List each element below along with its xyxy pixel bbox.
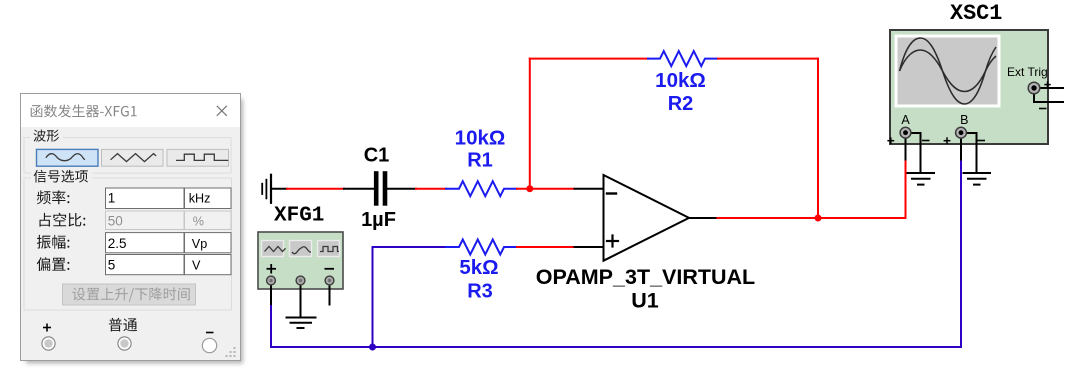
svg-text:V: V bbox=[192, 258, 201, 272]
svg-text:1µF: 1µF bbox=[361, 209, 396, 231]
groupbox label waveform bbox=[34, 130, 60, 142]
svg-text:Ext Trig: Ext Trig bbox=[1007, 65, 1048, 79]
resistor R3 symbol bbox=[446, 240, 517, 255]
op-amp minus sign bbox=[607, 192, 616, 194]
channel B terminal bbox=[956, 127, 967, 138]
channel A terminal stem bbox=[905, 135, 907, 161]
junction node at R1 output bbox=[526, 185, 533, 192]
waveform button sine (selected) bbox=[37, 149, 99, 166]
wire: bottom rail (blue) from XFG1 plus terminal to scope B bbox=[271, 160, 961, 347]
dialog title text bbox=[31, 105, 137, 118]
XSC1 waveform trace A bbox=[900, 38, 997, 104]
duty cycle unit box (disabled) bbox=[185, 211, 232, 230]
ground symbol under channel A bbox=[907, 173, 936, 185]
svg-text:U1: U1 bbox=[631, 288, 659, 312]
minus mark above radio 3 bbox=[206, 332, 214, 334]
op-amp U1 triangle bbox=[604, 175, 690, 261]
channel B terminal stem bbox=[960, 135, 962, 161]
svg-text:5kΩ: 5kΩ bbox=[459, 256, 498, 279]
svg-text:50: 50 bbox=[108, 213, 123, 228]
XFG1 terminal - bbox=[325, 276, 334, 285]
svg-text:R3: R3 bbox=[467, 281, 493, 303]
wire: R1 to op-amp minus input bbox=[517, 188, 604, 190]
XFG1 source symbol (3 bars) bbox=[262, 175, 271, 203]
svg-text:kHz: kHz bbox=[189, 192, 211, 206]
svg-text:XSC1: XSC1 bbox=[950, 1, 1002, 26]
Ext Trig terminal bbox=[1028, 82, 1040, 94]
svg-text:5: 5 bbox=[108, 257, 116, 272]
Ext Trig plus mark bbox=[1044, 81, 1050, 87]
radio button plus bbox=[42, 337, 55, 350]
resize grip bbox=[226, 347, 236, 357]
wire: R3 to op-amp plus input bbox=[517, 246, 604, 248]
waveform button triangle bbox=[102, 149, 164, 166]
wire: op-amp output bbox=[689, 160, 906, 218]
XSC1 screen bbox=[898, 38, 998, 105]
junction node at output bbox=[815, 215, 822, 222]
svg-text:%: % bbox=[193, 214, 204, 228]
channel B minus mark bbox=[978, 140, 986, 142]
resistor R1 symbol bbox=[446, 181, 517, 196]
svg-text:OPAMP_3T_VIRTUAL: OPAMP_3T_VIRTUAL bbox=[536, 265, 755, 289]
channel B minus stub to ground bbox=[964, 133, 977, 172]
svg-text:Vp: Vp bbox=[192, 237, 207, 251]
XFG1 terminal + bbox=[267, 276, 276, 285]
plus mark above radio 1 bbox=[43, 324, 51, 332]
waveform button square bbox=[167, 149, 229, 166]
XSC1 instrument box bbox=[890, 30, 1048, 144]
amplitude unit box bbox=[185, 233, 232, 253]
capacitor C1 plates bbox=[376, 174, 385, 204]
resistor R2 symbol bbox=[648, 51, 718, 66]
XFG1 instrument box bbox=[258, 232, 343, 289]
op-amp plus sign bbox=[607, 236, 618, 247]
channel A minus stub to ground bbox=[908, 133, 921, 172]
dialog panel body bbox=[21, 94, 241, 361]
svg-text:R2: R2 bbox=[668, 93, 694, 115]
channel A terminal bbox=[900, 127, 911, 138]
XSC1 screen frame bbox=[895, 35, 1001, 108]
svg-text:XFG1: XFG1 bbox=[274, 205, 324, 228]
XFG1 minus polarity mark bbox=[325, 268, 335, 270]
radio button minus bbox=[202, 338, 216, 352]
svg-text:C1: C1 bbox=[364, 144, 390, 166]
channel A plus mark bbox=[887, 137, 894, 144]
wire: C1 to R1 bbox=[387, 188, 446, 190]
wire: junction up to feedback (R2) top rail bbox=[530, 59, 648, 189]
XFG1 plus polarity mark bbox=[267, 264, 277, 274]
XFG1 terminal common bbox=[296, 276, 305, 285]
offset unit box bbox=[185, 255, 232, 275]
groupbox label signal options bbox=[34, 170, 88, 183]
amplitude input box bbox=[106, 233, 185, 253]
groupbox waveform bbox=[24, 138, 231, 174]
button set rise/fall time (disabled) bbox=[63, 284, 196, 305]
frequency input box bbox=[106, 188, 185, 209]
ground symbol under XFG1 common bbox=[286, 318, 317, 329]
XFG1 button 1 (triangle wave) bbox=[262, 241, 286, 257]
XFG1 terminal stems bbox=[271, 282, 330, 317]
junction node on bottom rail bbox=[369, 344, 376, 351]
svg-text:R1: R1 bbox=[467, 150, 493, 172]
channel B plus mark bbox=[944, 137, 951, 144]
svg-text:B: B bbox=[960, 113, 968, 127]
dialog close X bbox=[217, 106, 227, 116]
XSC1 waveform trace B bbox=[900, 50, 997, 92]
svg-text:10kΩ: 10kΩ bbox=[455, 127, 506, 150]
svg-text:A: A bbox=[901, 113, 910, 127]
Ext Trig minus mark bbox=[1039, 108, 1047, 110]
field label frequency bbox=[37, 190, 70, 204]
frequency unit box bbox=[185, 188, 232, 209]
wire: XFG1 output to C1 (black/red segments) y=188.7 bbox=[271, 188, 374, 190]
groupbox signal options bbox=[24, 178, 232, 310]
field label duty cycle bbox=[40, 213, 86, 227]
XFG1 button 2 (sine wave) bbox=[290, 241, 312, 257]
svg-text:1: 1 bbox=[108, 191, 116, 206]
channel A minus mark bbox=[922, 140, 930, 142]
Ext Trig stub wires bbox=[1034, 88, 1064, 102]
svg-text:2.5: 2.5 bbox=[108, 236, 127, 251]
svg-text:10kΩ: 10kΩ bbox=[655, 69, 706, 92]
label putong (common) bbox=[109, 318, 137, 332]
radio button common bbox=[118, 337, 131, 350]
ground symbol under channel B bbox=[963, 173, 992, 185]
wire: R3 from bottom rail up and to op-amp plus input bbox=[373, 247, 447, 347]
field label amplitude bbox=[37, 235, 70, 249]
duty cycle input box (disabled) bbox=[106, 211, 185, 230]
offset input box bbox=[106, 255, 185, 275]
XFG1 button 3 (square wave) bbox=[318, 241, 340, 257]
dialog title bar bbox=[21, 94, 240, 127]
wire: R2 to output node (right, down) bbox=[718, 59, 818, 218]
field label offset bbox=[37, 257, 70, 271]
